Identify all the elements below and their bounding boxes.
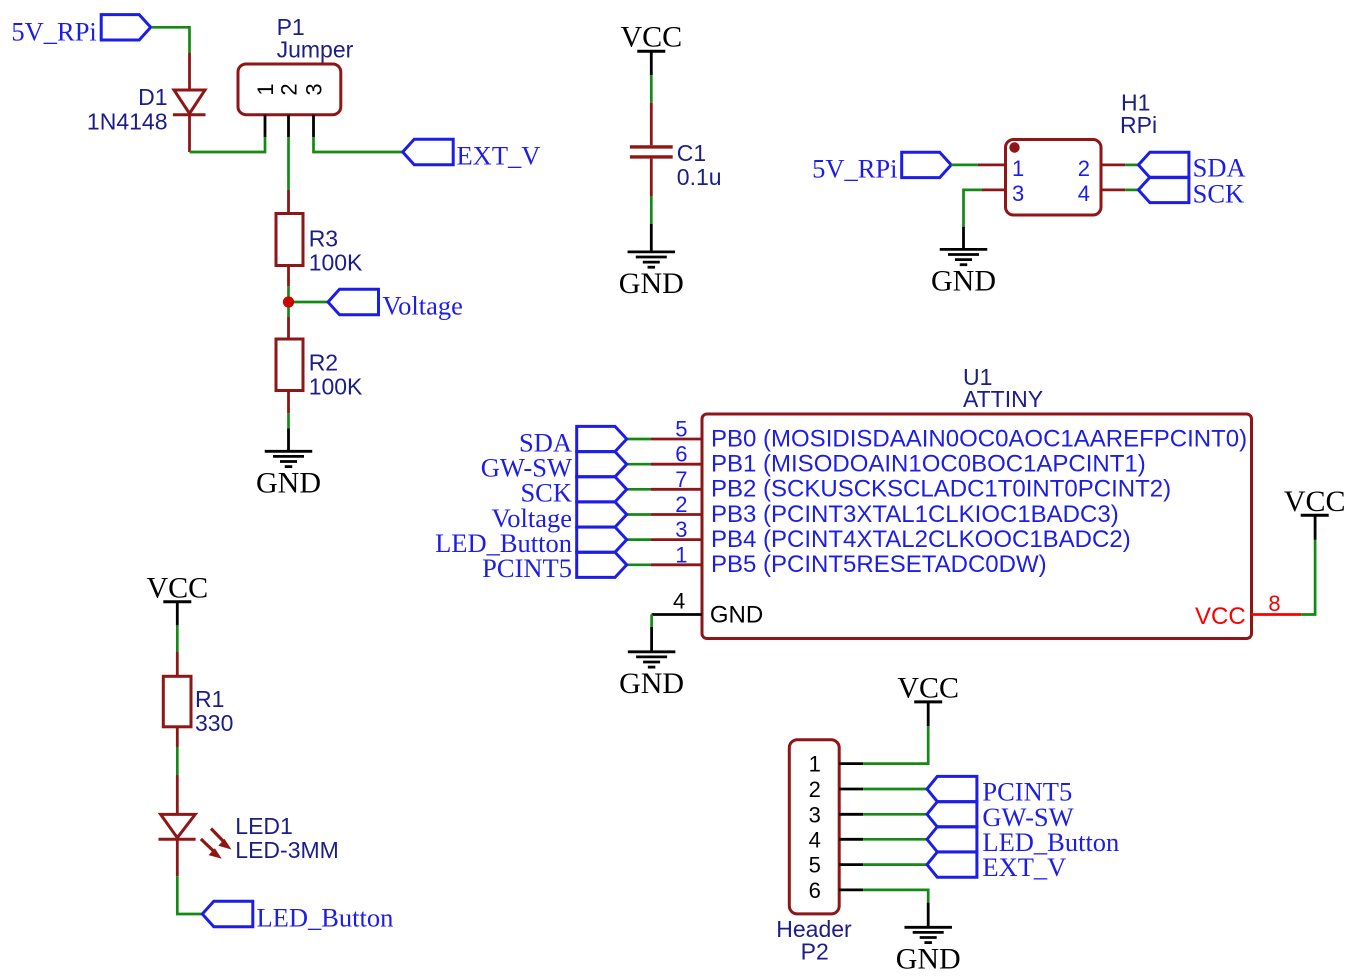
- svg-text:4: 4: [1078, 181, 1090, 206]
- svg-text:330: 330: [195, 710, 233, 736]
- connector P2 Header: [789, 740, 839, 914]
- wire: [627, 463, 651, 466]
- svg-text:5V_RPi: 5V_RPi: [11, 16, 96, 46]
- svg-text:5: 5: [809, 853, 821, 878]
- svg-text:PB5 (PCINT5RESETADC0DW): PB5 (PCINT5RESETADC0DW): [711, 551, 1047, 578]
- svg-text:2: 2: [277, 83, 302, 95]
- wire: [650, 75, 653, 103]
- wire: [289, 301, 329, 304]
- wire: [951, 164, 978, 167]
- svg-text:EXT_V: EXT_V: [457, 141, 541, 171]
- net label EXT_V: [927, 852, 977, 877]
- net label Voltage: [328, 289, 379, 314]
- svg-text:4: 4: [673, 589, 685, 614]
- svg-text:LED-3MM: LED-3MM: [235, 837, 339, 863]
- svg-text:PCINT5: PCINT5: [482, 553, 572, 583]
- wire: [627, 438, 651, 441]
- power VCC: [927, 702, 930, 726]
- net label LED_Button: [927, 827, 977, 852]
- net label GW-SW: [927, 802, 977, 827]
- connector H1 RPi: [978, 163, 1006, 166]
- wire: [1301, 540, 1315, 615]
- wire: [287, 302, 290, 317]
- svg-text:PB3 (PCINT3XTAL1CLKIOC1BADC3): PB3 (PCINT3XTAL1CLKIOC1BADC3): [711, 501, 1119, 528]
- svg-text:6: 6: [675, 442, 687, 467]
- net label EXT_V: [403, 139, 454, 164]
- led LED1: [176, 775, 179, 814]
- net label PCINT5: [577, 552, 627, 577]
- svg-text:0.1u: 0.1u: [677, 164, 722, 190]
- svg-text:VCC: VCC: [146, 571, 208, 604]
- ground: [927, 903, 930, 928]
- net label LED_Button: [577, 527, 627, 552]
- wire: [627, 538, 651, 541]
- svg-text:Voltage: Voltage: [382, 290, 462, 320]
- svg-text:EXT_V: EXT_V: [982, 852, 1066, 882]
- svg-text:GND: GND: [931, 264, 996, 297]
- svg-text:VCC: VCC: [620, 21, 682, 54]
- svg-text:2: 2: [675, 492, 687, 517]
- svg-text:ATTINY: ATTINY: [963, 386, 1043, 412]
- svg-text:PB0 (MOSIDISDAAIN0OC0AOC1AAREF: PB0 (MOSIDISDAAIN0OC0AOC1AAREFPCINT0): [711, 425, 1247, 452]
- capacitor C1: [650, 103, 653, 146]
- resistor R2: [287, 317, 290, 339]
- svg-text:4: 4: [809, 827, 821, 852]
- svg-text:5V_RPi: 5V_RPi: [812, 154, 897, 184]
- wire: [1125, 189, 1138, 192]
- svg-text:100K: 100K: [309, 250, 363, 276]
- svg-text:1: 1: [1012, 156, 1024, 181]
- wire: [287, 286, 290, 297]
- svg-text:7: 7: [675, 467, 687, 492]
- svg-text:3: 3: [1012, 181, 1024, 206]
- wire: [863, 890, 928, 903]
- ground: [650, 627, 653, 652]
- svg-text:PB4 (PCINT4XTAL2CLKOOC1BADC2): PB4 (PCINT4XTAL2CLKOOC1BADC2): [711, 526, 1131, 553]
- svg-text:SCK: SCK: [1193, 178, 1245, 208]
- svg-text:1: 1: [253, 83, 278, 95]
- wire: [627, 513, 651, 516]
- wire: [863, 788, 927, 791]
- svg-text:1: 1: [675, 542, 687, 567]
- svg-text:LED_Button: LED_Button: [257, 902, 394, 932]
- svg-text:C1: C1: [677, 140, 706, 166]
- net label SCK: [577, 477, 627, 502]
- diode D1: [188, 53, 191, 90]
- svg-text:P2: P2: [801, 939, 829, 965]
- net label 5V_RPi: [902, 152, 952, 177]
- svg-text:PB2 (SCKUSCKSCLADC1T0INT0PCINT: PB2 (SCKUSCKSCLADC1T0INT0PCINT2): [711, 476, 1171, 503]
- wire: [287, 137, 290, 190]
- svg-text:2: 2: [1078, 156, 1090, 181]
- ground: [962, 227, 965, 250]
- wire: [314, 137, 403, 152]
- svg-text:3: 3: [302, 83, 327, 95]
- net label LED_Button: [202, 901, 253, 926]
- net label SCK: [1138, 177, 1189, 202]
- wire: [177, 876, 202, 914]
- net label 5V_RPi: [101, 15, 151, 40]
- wire: [190, 137, 266, 152]
- svg-text:3: 3: [675, 517, 687, 542]
- svg-text:1N4148: 1N4148: [87, 109, 168, 135]
- svg-text:R2: R2: [309, 350, 338, 376]
- ground: [650, 224, 653, 252]
- svg-text:GND: GND: [896, 942, 961, 975]
- junction node Voltage: [283, 296, 294, 307]
- wire: [627, 488, 651, 491]
- wire: [152, 27, 190, 53]
- svg-text:8: 8: [1268, 591, 1280, 616]
- wire: [176, 625, 179, 652]
- svg-text:R1: R1: [195, 686, 224, 712]
- svg-text:VCC: VCC: [1195, 603, 1246, 630]
- net label PCINT5: [927, 776, 977, 801]
- connector P1 Jumper: [238, 64, 341, 115]
- svg-text:2: 2: [809, 777, 821, 802]
- svg-text:GND: GND: [619, 267, 684, 300]
- svg-text:100K: 100K: [309, 374, 363, 400]
- resistor R1: [176, 652, 179, 676]
- wire: [863, 813, 927, 816]
- svg-text:5: 5: [675, 417, 687, 442]
- svg-text:6: 6: [809, 878, 821, 903]
- wire: [964, 190, 983, 227]
- svg-text:3: 3: [809, 802, 821, 827]
- wire: [863, 863, 927, 866]
- ic U1 ATTINY: [702, 414, 1252, 639]
- resistor R3: [287, 190, 290, 214]
- wire: [863, 838, 927, 841]
- net label Voltage: [577, 502, 627, 527]
- svg-text:VCC: VCC: [897, 671, 959, 704]
- svg-text:Jumper: Jumper: [277, 37, 354, 63]
- wire: [650, 196, 653, 224]
- svg-text:GND: GND: [256, 466, 321, 499]
- wire: [1125, 164, 1138, 167]
- wire: [176, 747, 179, 775]
- svg-text:D1: D1: [138, 84, 167, 110]
- wire: [863, 726, 928, 764]
- wire: [287, 413, 290, 428]
- svg-text:1: 1: [809, 752, 821, 777]
- svg-text:RPi: RPi: [1120, 112, 1157, 138]
- svg-text:VCC: VCC: [1284, 485, 1346, 518]
- svg-text:GND: GND: [710, 601, 763, 628]
- svg-text:PB1 (MISODOAIN1OC0BOC1APCINT1): PB1 (MISODOAIN1OC0BOC1APCINT1): [711, 451, 1146, 478]
- net label SDA: [577, 426, 627, 451]
- wire: [627, 563, 651, 566]
- svg-text:LED1: LED1: [235, 813, 293, 839]
- wire: [650, 615, 653, 627]
- svg-text:R3: R3: [309, 226, 338, 252]
- ground: [287, 428, 290, 451]
- net label SDA: [1138, 152, 1189, 177]
- svg-text:GND: GND: [619, 667, 684, 700]
- power VCC: [1314, 515, 1317, 540]
- net label GW-SW: [577, 452, 627, 477]
